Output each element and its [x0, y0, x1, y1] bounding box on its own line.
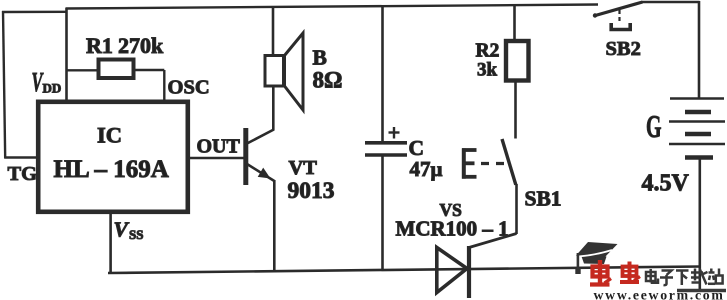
wire VSS drop — [109, 212, 112, 274]
svg-text:B: B — [313, 46, 327, 70]
wire speaker top lead — [272, 7, 275, 57]
wire left rail — [3, 11, 5, 159]
thyristor VS MCR100-1 — [437, 234, 517, 299]
svg-text:R1: R1 — [86, 33, 113, 58]
wire R2 to SB1 upper contact — [514, 81, 517, 139]
IC U1 HL-169A box — [38, 102, 188, 212]
svg-text:SS: SS — [129, 227, 143, 242]
svg-text:47μ: 47μ — [410, 157, 443, 181]
svg-text:DD: DD — [43, 81, 62, 96]
wire OUT to base — [189, 157, 244, 160]
watermark site name glyphs zai — [691, 269, 708, 285]
capacitor C polarized — [365, 127, 407, 155]
svg-text:IC: IC — [97, 123, 122, 148]
svg-text:MCR100 – 1: MCR100 – 1 — [396, 217, 509, 241]
svg-text:www.eeworm.com: www.eeworm.com — [594, 288, 725, 300]
svg-text:VT: VT — [289, 157, 318, 179]
watermark underline bar — [677, 289, 726, 293]
wire SB1 lower contact to gate — [515, 184, 518, 234]
svg-text:SB2: SB2 — [606, 38, 641, 60]
wire top rail left segment — [2, 11, 67, 14]
watermark site name glyphs zhan — [708, 269, 723, 284]
switch SB2 pushbutton NC — [593, 2, 643, 30]
svg-text:R2: R2 — [476, 41, 500, 62]
wire capacitor top lead — [381, 6, 384, 142]
resistor R2 — [506, 41, 529, 81]
svg-text:4.5V: 4.5V — [642, 171, 690, 197]
wire bottom rail — [108, 267, 701, 274]
wire TG lead — [5, 156, 39, 159]
wire R2 top lead — [513, 5, 516, 41]
watermark chongchong red character 2 — [620, 262, 640, 284]
svg-text:V: V — [114, 218, 130, 242]
wire right rail upper — [698, 1, 701, 99]
watermark chongchong red character 1 — [590, 260, 611, 286]
pin label VDD — [32, 67, 62, 97]
watermark site name glyphs zi — [660, 271, 673, 286]
watermark site name glyphs dian — [646, 269, 658, 283]
svg-text:9013: 9013 — [288, 178, 335, 204]
svg-text:8Ω: 8Ω — [313, 68, 343, 93]
resistor R1 — [67, 60, 165, 101]
switch SB1 pushbutton — [462, 139, 516, 185]
svg-text:TG: TG — [8, 163, 38, 185]
svg-text:3k: 3k — [477, 60, 498, 81]
wire VDD drop — [65, 8, 68, 102]
svg-text:OUT: OUT — [197, 136, 241, 158]
svg-text:OSC: OSC — [168, 77, 210, 99]
svg-text:270k: 270k — [118, 33, 164, 58]
pin label VSS — [114, 218, 144, 243]
svg-text:G: G — [646, 108, 662, 144]
wire emitter drop — [273, 180, 276, 272]
transistor Q1 VT 9013 — [246, 128, 274, 185]
watermark graduation cap logo — [575, 242, 617, 274]
wire speaker bottom to collector — [272, 85, 275, 131]
wire top rail right segment — [642, 1, 700, 3]
watermark site name glyphs xia — [676, 271, 689, 286]
wire top rail main — [66, 5, 598, 9]
svg-text:SB1: SB1 — [525, 187, 562, 211]
wire right rail lower (battery minus to bottom, continues past bottom rail) — [698, 158, 701, 291]
speaker B — [265, 33, 303, 110]
battery G 3 cells — [669, 99, 725, 158]
svg-text:HL – 169A: HL – 169A — [54, 156, 169, 183]
wire capacitor bottom lead — [381, 157, 384, 270]
